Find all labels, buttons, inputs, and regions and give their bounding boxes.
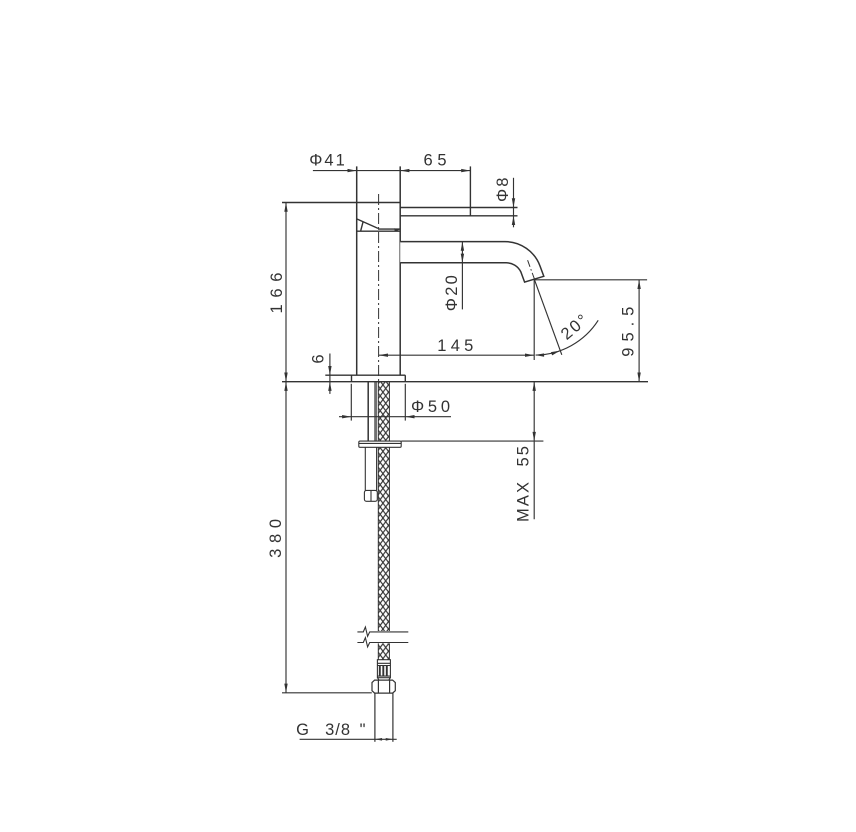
spout tip centerline [528, 260, 535, 279]
dimension G 3/8 [300, 738, 397, 740]
faucet body outline [282, 166, 400, 375]
threaded stud below washer [365, 447, 376, 490]
threaded stud above mounting washer [368, 382, 376, 441]
svg-text:166: 166 [268, 271, 286, 314]
extension line bottom for 380 [282, 692, 372, 694]
svg-text:145: 145 [437, 337, 475, 355]
svg-text:Φ20: Φ20 [443, 273, 461, 311]
dimension 145 [379, 354, 534, 356]
ferrule neck [378, 678, 391, 680]
break line upper [357, 627, 408, 636]
dimension 380 left [285, 382, 287, 693]
svg-text:6: 6 [309, 352, 327, 363]
dimension phi8 [513, 178, 515, 228]
angle arc [536, 320, 599, 355]
dimension 6 flange thickness [329, 354, 331, 394]
handle lever wedge [357, 219, 401, 231]
svg-text:65: 65 [424, 152, 449, 170]
spout tube (phi20) [400, 242, 544, 283]
svg-text:380: 380 [267, 517, 285, 558]
svg-text:20°: 20° [558, 310, 593, 344]
svg-text:Φ8: Φ8 [494, 176, 512, 203]
mounting washer [359, 441, 401, 447]
svg-text:3/8: 3/8 [325, 721, 352, 739]
svg-text:G: G [296, 721, 311, 739]
svg-text:Φ50: Φ50 [411, 398, 452, 416]
svg-text:": " [360, 721, 368, 739]
dimension 95.5 [534, 279, 647, 281]
hose crimp ferrule [377, 660, 390, 678]
dimension phi50 [339, 416, 451, 418]
svg-text:95.5: 95.5 [620, 305, 638, 357]
dimension 166 left [285, 203, 287, 382]
handle tip wedge [395, 228, 400, 231]
deck line [282, 381, 648, 383]
stud end nut [364, 490, 377, 501]
lever rod (phi8) [400, 166, 517, 215]
break line lower [357, 638, 408, 647]
svg-text:MAX 55: MAX 55 [515, 444, 533, 522]
base flange [325, 375, 405, 382]
dimension phi41 and 65 top line [313, 170, 471, 172]
dimension phi20 [461, 242, 463, 310]
extension line tip vertical [533, 280, 535, 360]
angle 20 degree line [534, 280, 561, 355]
dimension MAX 55 [533, 382, 535, 520]
body centerline [378, 194, 380, 382]
G3/8 threaded pipe [375, 693, 393, 742]
braided hose lower segment [378, 643, 389, 659]
braided hose upper segment [378, 382, 389, 441]
braided hose middle segment [378, 447, 389, 631]
hex coupling nut G3/8 [372, 680, 395, 693]
svg-text:Φ41: Φ41 [309, 152, 347, 170]
